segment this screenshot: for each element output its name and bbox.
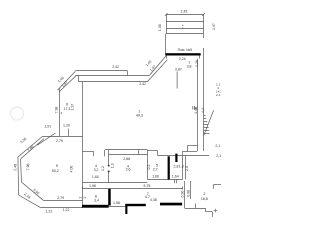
corridor dim verticals [184,181,186,208]
floor line rooms AB [83,182,148,184]
svg-text:2,79: 2,79 [56,139,63,143]
notch [187,146,189,152]
svg-text:16,6: 16,6 [201,197,208,201]
thin line between black bars [109,206,126,208]
riser at 78.1 [78,75,80,81]
floor line rooms CD [147,179,182,181]
small wall marks x193-196 y106-110 [192,106,194,110]
wall ticks below window wall [166,56,168,59]
black bar 3 [160,203,182,206]
svg-text:1,31: 1,31 [45,209,52,213]
svg-text:2,42: 2,42 [139,82,146,86]
left wall lower outer [17,157,20,195]
svg-text:9: 9 [56,164,58,168]
svg-text:4,00: 4,00 [69,166,73,173]
corridor vertical x182.6 [182,151,184,179]
svg-text:2,1: 2,1 [215,144,220,148]
svg-text:Пом. №5: Пом. №5 [178,48,193,52]
svg-text:1,20: 1,20 [63,124,70,128]
svg-text:2: 2 [203,192,205,196]
svg-text:3,8: 3,8 [187,64,192,68]
staircase rungs [204,115,206,117]
svg-text:2,79: 2,79 [57,196,64,200]
top wall line B [75,75,149,77]
diagonal top-right outer [150,56,166,75]
balcony window line [166,28,204,30]
diagonal top-left inner [59,75,76,91]
svg-text:1,91: 1,91 [44,124,51,128]
top wall tick at 127.6 [127,71,129,75]
core top band upper right segment [105,149,147,151]
right edge corner rect [214,184,221,186]
svg-text:1,9: 1,9 [179,165,184,169]
dark divider room C/D [168,156,170,179]
vertical x185.6 [185,155,187,179]
wall y151 right [183,151,188,153]
svg-text:3,2: 3,2 [94,168,99,172]
svg-text:1,64: 1,64 [172,174,179,178]
interior vertical wall main [82,82,84,207]
right wall outer [203,56,205,151]
floor ticks below room D [174,179,176,183]
leader line to 1,91 [37,133,55,145]
top wall outer line A [75,70,127,72]
balcony right side [203,14,205,33]
svg-text:1,66: 1,66 [152,174,159,178]
svg-text:2,43: 2,43 [181,9,188,13]
balcony top edge [166,21,204,23]
window wall below loggia [165,53,201,55]
right wall inner [197,69,199,151]
long thin line y155 [158,155,209,157]
dark wall x109 [108,189,111,206]
svg-text:0,2: 0,2 [147,165,151,170]
entrance steps [185,208,206,210]
svg-text:2,42: 2,42 [112,65,119,69]
svg-text:2,24: 2,24 [179,57,186,61]
bottom wall inner [43,200,82,202]
svg-text:7,98: 7,98 [55,107,59,114]
bottom wall outer [40,207,83,209]
top wall interior line C [78,81,147,83]
svg-text:40,3: 40,3 [136,114,143,118]
dim line 1,26 vertical [197,59,199,70]
jamb tick in top band [138,150,140,154]
diagonal top-left outer [58,71,76,90]
svg-text:4: 4 [95,164,97,168]
svg-text:6: 6 [66,103,68,107]
tick for 1,20 [68,129,70,137]
black bar 1 [82,205,109,208]
svg-text:2,68: 2,68 [123,157,130,161]
svg-text:1,97: 1,97 [70,104,74,111]
diagonal top-right inner [148,60,168,82]
svg-text:2,1: 2,1 [216,154,221,158]
dim line 5,75 [83,188,183,190]
svg-text:2,8: 2,8 [174,165,179,169]
svg-text:7,98: 7,98 [26,163,30,170]
left wall vertical [59,89,61,137]
svg-text:1,58: 1,58 [113,201,120,205]
core top band upper left segment [83,151,94,153]
balcony left side [166,14,168,33]
door jambs wall A/B [108,165,110,172]
window colon mark [182,25,183,28]
svg-text:1,26: 1,26 [195,60,199,67]
svg-text:1,98: 1,98 [89,184,96,188]
wall between A and B [108,150,110,166]
svg-text:1,22: 1,22 [63,208,70,212]
svg-text:1,3: 1,3 [111,163,115,168]
left diagonal upper outer [18,137,42,158]
core top band lower line [109,154,148,156]
svg-text:2,48: 2,48 [13,164,17,171]
svg-text:50,2: 50,2 [52,169,59,173]
left diagonal upper inner [21,139,44,159]
staircase diagonal [204,110,214,135]
svg-text:3,87: 3,87 [175,68,182,72]
wall B right [147,150,149,180]
svg-text:3,4: 3,4 [94,198,99,202]
dim line below 3,87 [176,72,178,89]
loggia side walls [165,34,167,54]
dark post near corridor [175,154,177,162]
svg-text:4,4: 4,4 [201,108,205,113]
svg-text:1,38: 1,38 [158,24,162,31]
faint watermark circle [11,107,24,120]
svg-text:0,98: 0,98 [186,190,190,197]
svg-text:3,: 3, [61,111,64,115]
svg-text:2,6: 2,6 [126,168,131,172]
left bottom diagonal inner [21,182,43,200]
cross mark bottom right [214,209,218,213]
thick black walls [82,53,201,214]
svg-text:5,75: 5,75 [144,184,151,188]
black bar 2 vertical [125,205,127,215]
svg-text:1,60: 1,60 [92,175,99,179]
balcony dimension line [166,14,204,16]
room C top connector [147,150,157,152]
svg-text:4,45: 4,45 [194,107,198,114]
svg-text:2,7: 2,7 [153,168,158,172]
svg-text:2,1: 2,1 [216,93,221,97]
wall room9 top [42,136,82,138]
black bar 2 [125,204,146,206]
svg-text:1,2: 1,2 [101,166,105,171]
svg-text:2,0: 2,0 [185,166,189,171]
svg-text:1,97: 1,97 [212,23,216,30]
svg-text:4,38: 4,38 [150,198,157,202]
svg-text:0,90: 0,90 [180,191,184,198]
left bottom diagonal outer [19,195,41,207]
balcony inner edge [166,33,204,35]
svg-text:2: 2 [79,197,83,199]
left wall lower inner [20,159,23,182]
svg-text:2: 2 [83,197,87,199]
